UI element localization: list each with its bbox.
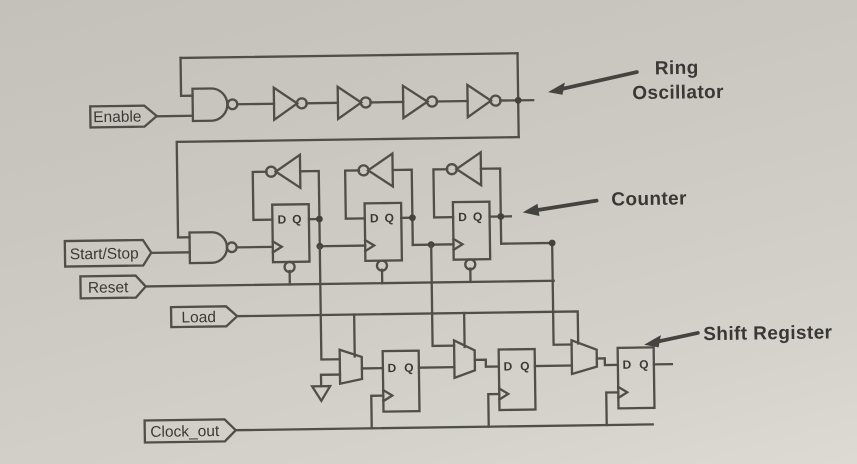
wire Load to mux U13 select: [353, 315, 356, 357]
wire Clock_out line: [236, 424, 653, 430]
wire Q1 down to mux U13: [320, 246, 340, 360]
svg-text:Counter: Counter: [611, 188, 687, 210]
svg-text:D: D: [370, 211, 379, 225]
flip-flop U17: [499, 349, 536, 410]
flip-flop U8: [365, 203, 402, 271]
wire U8 Q to U11 input: [393, 170, 413, 245]
flip-flop U9: [453, 202, 490, 270]
wire U12 output loop to U9 D: [433, 169, 453, 217]
wire U17 Q to mux U15: [535, 364, 572, 367]
node Clock_out: [145, 419, 236, 442]
flip-flop U16: [383, 351, 420, 412]
wire Q1 to U8 clock: [320, 244, 365, 247]
node Q1 junction: [316, 216, 323, 223]
flip-flop U18: [618, 347, 655, 408]
wire U9 Q to U12 input: [481, 168, 501, 243]
wire clock to U17: [488, 394, 499, 427]
svg-text:Q: Q: [639, 357, 649, 371]
svg-text:D: D: [503, 359, 512, 373]
wire U7 Q: [309, 218, 319, 220]
wire U7 clear to Reset: [288, 271, 290, 284]
wire Start/Stop to NAND U6: [151, 251, 189, 254]
svg-text:Shift Register: Shift Register: [703, 322, 833, 345]
svg-text:Enable: Enable: [93, 108, 141, 126]
wire feedback top: [181, 53, 518, 58]
wire U8 Q: [401, 217, 412, 219]
svg-text:Reset: Reset: [88, 279, 129, 297]
wire U6 output to U7 clock: [237, 246, 273, 249]
arrow to counter: [523, 201, 597, 217]
wire U3 to U4: [370, 101, 403, 104]
wire clock to U16: [371, 396, 383, 429]
node Reset: [80, 275, 146, 298]
wire Q3 down to shift register: [501, 243, 571, 346]
node Enable: [90, 105, 157, 127]
wire feedback right vertical: [518, 53, 519, 137]
svg-text:D: D: [458, 210, 467, 224]
inverter U2: [274, 87, 307, 120]
svg-text:Load: Load: [181, 309, 216, 326]
flip-flop U7: [272, 204, 309, 272]
node Q2 junction: [409, 214, 416, 221]
wire Q2 down to mux U14: [431, 244, 454, 346]
svg-text:Q: Q: [404, 361, 414, 375]
wire U10 output loop to U7 D: [253, 172, 273, 220]
label Ring Oscillator: [632, 57, 724, 104]
wire U8 clear to Reset: [381, 270, 383, 283]
svg-text:D: D: [387, 361, 396, 375]
svg-text:Q: Q: [385, 211, 395, 225]
wire Load to mux U14 select: [463, 313, 466, 347]
wire U16 Q to mux U14: [419, 366, 454, 369]
node Q3 corner junction: [549, 240, 556, 247]
mux U14: [454, 340, 475, 378]
wire oscillator output down to counter: [177, 137, 520, 237]
wire feedback left vertical into NAND input: [181, 58, 193, 96]
wire ground to mux U13: [321, 375, 340, 387]
inverter U12 feedback of U9: [447, 152, 482, 185]
node Load: [171, 306, 237, 327]
inverter U10 feedback of U7: [266, 155, 300, 188]
wire clock to U18: [606, 392, 618, 425]
svg-text:Start/Stop: Start/Stop: [70, 245, 139, 263]
svg-text:Clock_out: Clock_out: [150, 423, 220, 441]
inverter U4: [403, 85, 437, 118]
wire U7 Q to U10 input: [300, 171, 320, 246]
wire U13 output to U16 D: [362, 367, 383, 370]
wire Reset line: [146, 281, 554, 287]
inverter U3: [338, 86, 371, 119]
node oscillator output junction: [515, 97, 522, 104]
wire U1 to U2: [237, 103, 274, 106]
svg-text:D: D: [622, 358, 631, 372]
nand gate U1: [192, 88, 237, 121]
nand gate U6: [189, 232, 236, 263]
node Q2 branch junction: [428, 241, 435, 248]
wire U5 output stub: [500, 99, 533, 102]
wire U4 to U5: [437, 100, 468, 103]
wire Load line: [237, 311, 578, 348]
svg-text:D: D: [277, 212, 286, 226]
inverter U5: [467, 84, 500, 117]
wire U14 output to U17 D: [475, 360, 499, 367]
wire U18 Q stub: [654, 363, 672, 366]
wire Q2 to U9 clock: [413, 243, 454, 246]
svg-text:Oscillator: Oscillator: [632, 82, 724, 104]
wire U9 clear to Reset: [469, 269, 471, 282]
wire U2 to U3: [306, 102, 337, 105]
svg-text:Q: Q: [292, 212, 302, 226]
ground: [312, 386, 330, 401]
wire U15 output to U18 D: [597, 358, 618, 365]
svg-text:Q: Q: [473, 210, 483, 224]
svg-text:Ring: Ring: [655, 58, 699, 80]
node Q1 corner junction: [316, 243, 323, 250]
wire Enable to NAND U1: [157, 115, 193, 118]
arrow to ring oscillator: [548, 72, 637, 95]
mux U13: [340, 349, 362, 383]
mux U15: [572, 340, 597, 374]
arrow to shift register: [644, 333, 698, 348]
node Start/Stop: [65, 240, 152, 267]
wire U11 output loop to U8 D: [345, 170, 365, 218]
inverter U11 feedback of U8: [358, 153, 393, 186]
wire U9 Q: [490, 215, 511, 218]
node Q3 junction: [497, 213, 504, 220]
svg-text:Q: Q: [520, 359, 530, 373]
